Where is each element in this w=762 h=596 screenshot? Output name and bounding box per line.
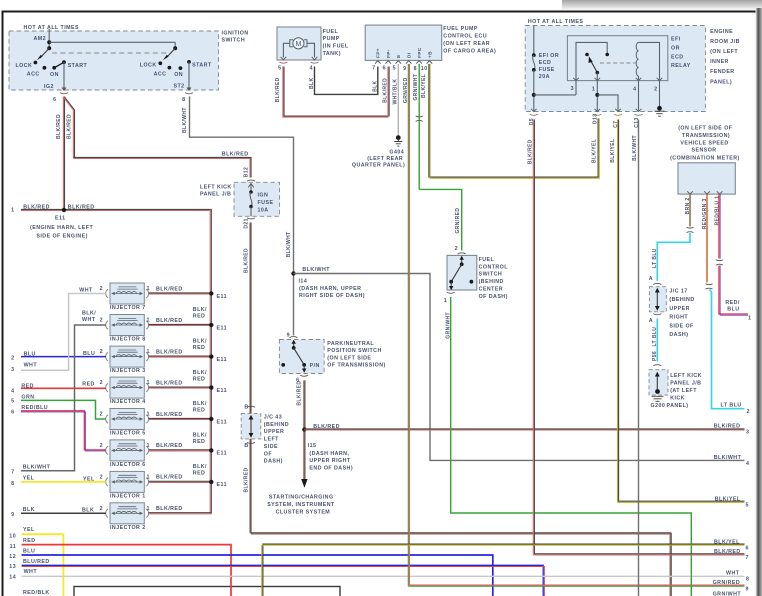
svg-text:PARK/NEUTRAL: PARK/NEUTRAL xyxy=(327,341,374,347)
svg-text:RED/BLK: RED/BLK xyxy=(23,590,50,596)
svg-text:2: 2 xyxy=(100,380,103,386)
wire relay 1 to exits D13/C7 xyxy=(596,81,598,112)
node I14 xyxy=(291,271,295,275)
wire BLK/RED D5 to right pin 7 xyxy=(534,120,744,554)
svg-text:BLK/YEL: BLK/YEL xyxy=(714,539,740,545)
svg-text:8: 8 xyxy=(414,66,417,72)
motor M xyxy=(293,38,304,49)
contact ACC left xyxy=(43,66,47,70)
svg-text:GRN/RED: GRN/RED xyxy=(713,580,741,586)
svg-text:BLK/: BLK/ xyxy=(193,370,207,376)
svg-text:EFI OR: EFI OR xyxy=(539,53,559,59)
svg-text:6: 6 xyxy=(11,409,14,415)
svg-text:SIDE OF ENGINE): SIDE OF ENGINE) xyxy=(36,234,87,240)
svg-text:TANK): TANK) xyxy=(323,51,341,57)
svg-text:OF CARGO AREA): OF CARGO AREA) xyxy=(443,48,496,54)
svg-text:6: 6 xyxy=(746,545,749,551)
svg-text:RIGHT: RIGHT xyxy=(669,315,688,321)
wire BLK/RED injector 3 out xyxy=(149,355,211,357)
svg-text:RED/BLU: RED/BLU xyxy=(21,405,48,411)
wire RED pin11 xyxy=(22,545,231,596)
svg-text:TRANSMISSION): TRANSMISSION) xyxy=(682,133,730,139)
svg-text:BLK/RED: BLK/RED xyxy=(296,381,302,406)
svg-text:3: 3 xyxy=(571,86,574,92)
wire GRN/WHT to fuel control switch xyxy=(419,189,462,250)
svg-text:GRN/WHT: GRN/WHT xyxy=(413,74,419,101)
connector A below J/C17 xyxy=(653,314,661,315)
junction connector J/C 17 xyxy=(649,287,666,312)
svg-text:ROOM J/B: ROOM J/B xyxy=(710,39,740,45)
svg-text:UPPER: UPPER xyxy=(669,306,690,312)
connector pin 4 xyxy=(311,62,319,63)
svg-text:ENGINE: ENGINE xyxy=(710,29,733,35)
node I15 xyxy=(302,427,306,431)
svg-text:8: 8 xyxy=(746,577,749,583)
switch arm left xyxy=(40,48,49,58)
svg-text:IG2: IG2 xyxy=(44,84,54,90)
svg-text:OR: OR xyxy=(671,46,680,52)
svg-text:PANEL): PANEL) xyxy=(667,403,689,409)
wire GRN/RED DI to right pin 9 xyxy=(407,64,409,586)
svg-text:QUARTER PANEL): QUARTER PANEL) xyxy=(352,163,405,169)
svg-text:E11: E11 xyxy=(217,325,227,331)
svg-text:(BEHIND: (BEHIND xyxy=(669,297,694,303)
svg-text:+B: +B xyxy=(427,51,433,58)
svg-text:DASH): DASH) xyxy=(264,459,283,465)
wire BLK/RED injector 5 out xyxy=(149,417,211,419)
svg-text:(AT LEFT: (AT LEFT xyxy=(670,388,697,394)
connector D21 xyxy=(247,218,255,219)
svg-text:SIDE OF: SIDE OF xyxy=(669,323,694,329)
svg-text:B: B xyxy=(244,443,248,449)
wire ON-START bridge xyxy=(54,62,64,68)
svg-text:4: 4 xyxy=(746,461,749,467)
wire IG2 xyxy=(63,62,65,89)
connector switch exit xyxy=(447,292,455,293)
gray band top right xyxy=(562,0,762,10)
svg-text:INNER: INNER xyxy=(710,59,729,65)
svg-text:4: 4 xyxy=(11,389,14,395)
svg-text:BLK/RED: BLK/RED xyxy=(243,248,249,273)
svg-text:5: 5 xyxy=(278,65,281,71)
svg-text:BLK/RED: BLK/RED xyxy=(383,78,389,103)
svg-text:GRN: GRN xyxy=(21,394,34,400)
svg-text:BLK/YEL: BLK/YEL xyxy=(715,497,741,503)
J/B exit chevrons xyxy=(531,109,641,112)
relay contact rail xyxy=(576,42,607,80)
svg-text:G404: G404 xyxy=(389,149,404,155)
svg-text:2: 2 xyxy=(100,349,103,355)
svg-text:FP+: FP+ xyxy=(376,48,382,58)
svg-text:CONTROL: CONTROL xyxy=(479,264,509,270)
svg-text:BLK/WHT: BLK/WHT xyxy=(632,135,638,161)
wire BRN sensor pin2 xyxy=(689,194,691,226)
injector 4 xyxy=(106,377,149,398)
svg-text:BLK/: BLK/ xyxy=(193,464,207,470)
svg-text:BLK/RED: BLK/RED xyxy=(68,204,95,210)
wire RED/BLU to right pin 1 xyxy=(719,266,748,315)
wire BLK/WHT C13 down xyxy=(638,120,640,596)
svg-text:WHT: WHT xyxy=(79,288,93,294)
node E11 tap 5 xyxy=(209,417,213,421)
svg-text:11: 11 xyxy=(10,544,17,550)
wire GRN to injector 5 xyxy=(21,400,106,419)
svg-text:8: 8 xyxy=(11,481,14,487)
svg-text:INJECTOR 4: INJECTOR 4 xyxy=(110,399,146,405)
svg-text:WHT: WHT xyxy=(82,317,96,323)
svg-text:G200: G200 xyxy=(651,403,666,409)
contact LOCK left xyxy=(34,61,38,65)
svg-text:DI: DI xyxy=(407,52,413,58)
wire BLK/RED E11 bus vertical xyxy=(210,209,212,514)
svg-text:RED: RED xyxy=(193,345,206,351)
svg-text:E11: E11 xyxy=(217,388,227,394)
svg-text:(ENGINE HARN, LEFT: (ENGINE HARN, LEFT xyxy=(30,225,93,231)
svg-text:RED/: RED/ xyxy=(725,300,740,306)
svg-text:WHT: WHT xyxy=(24,362,38,368)
svg-text:INJECTOR 2: INJECTOR 2 xyxy=(110,525,146,531)
connector RED-GRN/LTBLU xyxy=(706,284,713,289)
svg-text:PUMP: PUMP xyxy=(323,36,340,42)
svg-text:B: B xyxy=(244,404,248,410)
svg-text:RELAY: RELAY xyxy=(671,63,691,69)
svg-text:PANEL): PANEL) xyxy=(710,79,732,85)
svg-text:1: 1 xyxy=(11,208,14,214)
relay actuator dashes xyxy=(600,62,636,64)
svg-text:9: 9 xyxy=(403,66,406,72)
page border left xyxy=(2,11,4,596)
contact START left xyxy=(62,60,66,64)
svg-text:(COMBINATION METER): (COMBINATION METER) xyxy=(670,156,740,162)
svg-text:FENDER: FENDER xyxy=(710,69,734,75)
svg-text:YEL: YEL xyxy=(23,527,35,533)
svg-text:ON: ON xyxy=(50,72,59,78)
svg-text:3: 3 xyxy=(746,429,749,435)
wire LT BLU to J/C17 xyxy=(657,233,690,281)
svg-text:2: 2 xyxy=(100,443,103,449)
wire BLK/WHT from ST2 to I14 xyxy=(190,97,294,336)
svg-text:E11: E11 xyxy=(217,294,227,300)
svg-text:BLU: BLU xyxy=(727,307,739,313)
svg-text:BLK/: BLK/ xyxy=(193,339,207,345)
wire YEL pin10 down xyxy=(22,534,64,596)
svg-text:M: M xyxy=(295,41,301,48)
svg-text:WHT/BLK: WHT/BLK xyxy=(392,79,398,105)
svg-text:1: 1 xyxy=(147,443,150,449)
svg-text:A: A xyxy=(649,318,653,324)
svg-text:BLU/RED: BLU/RED xyxy=(23,559,50,565)
connector P/N exit xyxy=(300,375,308,376)
mechanical link dashes xyxy=(52,52,167,54)
svg-text:1: 1 xyxy=(147,318,150,324)
relay coil xyxy=(636,42,638,76)
svg-text:BLK/YEL: BLK/YEL xyxy=(591,139,597,163)
ECU box xyxy=(365,25,442,60)
svg-text:9: 9 xyxy=(746,586,749,592)
svg-text:D13: D13 xyxy=(592,114,598,124)
svg-text:BLK/RED: BLK/RED xyxy=(156,286,183,292)
connector at ST2 xyxy=(187,88,192,92)
connector BRN/LTBLU xyxy=(687,227,694,232)
svg-text:1: 1 xyxy=(147,506,150,512)
svg-text:HOT AT ALL TIMES: HOT AT ALL TIMES xyxy=(528,19,583,25)
svg-text:ST2: ST2 xyxy=(174,83,185,89)
svg-text:2: 2 xyxy=(100,318,103,324)
svg-text:E: E xyxy=(396,54,402,58)
injector 1 xyxy=(106,471,149,492)
wire BLK/RED injector 4 out xyxy=(149,386,211,388)
svg-text:POSITION SWITCH: POSITION SWITCH xyxy=(327,348,381,354)
svg-text:BLK/WHT: BLK/WHT xyxy=(714,455,742,461)
wire BLK/YEL C7 to right pin 5 xyxy=(619,120,745,502)
svg-text:LEFT: LEFT xyxy=(264,437,279,443)
wire BLU to injector 3 xyxy=(21,356,106,358)
wire YEL to injector 1 xyxy=(21,481,106,483)
node E11 tap 6 xyxy=(209,448,213,452)
svg-text:WHT: WHT xyxy=(726,571,740,577)
switch box xyxy=(447,255,477,290)
contact ON right xyxy=(179,66,183,70)
svg-text:A: A xyxy=(649,276,653,282)
wire RED to injector 4 xyxy=(21,387,106,389)
injector 7 xyxy=(106,283,149,304)
svg-text:6: 6 xyxy=(53,97,56,103)
svg-text:BLK/RED: BLK/RED xyxy=(156,443,183,449)
svg-text:RED: RED xyxy=(193,314,206,320)
contact START right xyxy=(187,60,191,64)
svg-text:WHT: WHT xyxy=(24,569,38,575)
connector C13 xyxy=(635,114,643,115)
svg-text:ACC: ACC xyxy=(154,71,167,77)
switch PARK/NEUTRAL POSITION xyxy=(279,340,324,374)
svg-text:LOCK: LOCK xyxy=(16,63,33,69)
wire LT BLU J/C17 to G200 xyxy=(656,319,658,362)
svg-text:INJECTOR 5: INJECTOR 5 xyxy=(110,431,146,437)
wire BLU/RED pin13 xyxy=(22,565,544,596)
svg-text:OF DASH): OF DASH) xyxy=(479,294,508,300)
svg-text:BLK/RED: BLK/RED xyxy=(528,139,534,164)
svg-text:LT BLU: LT BLU xyxy=(652,248,658,268)
wire BLK/RED down at x=670 xyxy=(669,533,671,596)
svg-text:UPPER: UPPER xyxy=(264,429,285,435)
svg-text:7: 7 xyxy=(372,65,375,71)
right switch pivot xyxy=(174,42,176,48)
svg-text:E11: E11 xyxy=(217,419,227,425)
wire BLK pump to ECU FP+ xyxy=(315,67,378,95)
svg-text:CLUSTER SYSTEM: CLUSTER SYSTEM xyxy=(276,510,331,516)
connector C7 xyxy=(614,114,622,115)
svg-text:1: 1 xyxy=(147,412,150,418)
svg-text:STARTING/CHARGING: STARTING/CHARGING xyxy=(269,494,334,500)
svg-text:(DASH HARN, UPPER: (DASH HARN, UPPER xyxy=(299,286,361,292)
svg-text:INJECTOR 3: INJECTOR 3 xyxy=(110,368,146,374)
junction box ENGINE ROOM J/B xyxy=(525,26,705,112)
svg-text:LT BLU: LT BLU xyxy=(721,403,742,409)
svg-text:GRN/WHT: GRN/WHT xyxy=(713,591,742,596)
fuse EFI OR ECD 20A xyxy=(533,26,535,56)
svg-text:LOCK: LOCK xyxy=(140,63,157,69)
svg-text:1: 1 xyxy=(147,286,150,292)
injector 6 xyxy=(106,440,149,461)
wire RED/BLU to injector 6 xyxy=(21,411,106,450)
svg-text:BLK/: BLK/ xyxy=(193,433,207,439)
connector RED/BLU xyxy=(716,260,723,265)
svg-text:3: 3 xyxy=(11,367,14,373)
node E11 tap 1 xyxy=(209,480,213,484)
wire BLK/RED horizontal to B12 xyxy=(73,156,251,158)
page border top xyxy=(2,11,758,13)
svg-text:P56: P56 xyxy=(652,351,658,361)
svg-text:FPC: FPC xyxy=(417,47,423,58)
svg-text:RED: RED xyxy=(193,471,206,477)
svg-text:J/C 17: J/C 17 xyxy=(669,289,687,295)
connector B12 xyxy=(247,180,255,181)
svg-text:EFI: EFI xyxy=(671,37,681,43)
connector D5 xyxy=(530,114,538,115)
svg-text:INJECTOR 8: INJECTOR 8 xyxy=(110,337,146,343)
fuse IGN 10A xyxy=(248,184,254,188)
sensor exit chevrons xyxy=(687,191,722,194)
svg-text:BLK/RED: BLK/RED xyxy=(156,318,183,324)
fuel pump box xyxy=(277,27,321,60)
svg-text:IGNITION: IGNITION xyxy=(222,31,249,37)
svg-text:BLK/RED: BLK/RED xyxy=(156,380,183,386)
svg-text:5: 5 xyxy=(746,503,749,509)
wire BLK/YEL +B to J/B D13 xyxy=(429,64,598,177)
wire BLK/RED D21 down xyxy=(250,223,252,534)
svg-text:(LEFT REAR: (LEFT REAR xyxy=(367,156,403,162)
svg-text:ECD: ECD xyxy=(671,54,684,60)
relay EFI OR ECD xyxy=(567,36,667,81)
svg-text:(ON LEFT REAR: (ON LEFT REAR xyxy=(443,41,490,47)
svg-text:14: 14 xyxy=(9,575,16,581)
svg-text:E11: E11 xyxy=(217,482,227,488)
svg-text:INJECTOR 7: INJECTOR 7 xyxy=(110,305,146,311)
wire LT BLU to right pin 2 xyxy=(710,290,745,409)
injector 2 xyxy=(106,503,149,524)
svg-text:(ON LEFT SIDE: (ON LEFT SIDE xyxy=(327,355,371,361)
injector 5 xyxy=(106,409,149,430)
svg-text:INJECTOR 1: INJECTOR 1 xyxy=(110,493,146,499)
svg-text:BLK/YEL: BLK/YEL xyxy=(421,74,427,98)
junction box IGN FUSE xyxy=(234,182,280,216)
wire BLU pin12 xyxy=(22,555,493,596)
svg-text:SWITCH: SWITCH xyxy=(222,38,246,44)
svg-text:BLK/WHT: BLK/WHT xyxy=(23,464,51,470)
svg-text:J/C 43: J/C 43 xyxy=(264,415,282,421)
node E11 xyxy=(62,208,66,212)
svg-text:D21: D21 xyxy=(244,218,250,228)
svg-text:E11: E11 xyxy=(217,357,227,363)
svg-text:BLK/RED: BLK/RED xyxy=(243,467,249,492)
svg-text:SYSTEM, INSTRUMENT: SYSTEM, INSTRUMENT xyxy=(267,502,335,508)
node E11 tap 3 xyxy=(209,354,213,358)
wire WHT pin14 to right pin 8 xyxy=(22,575,745,577)
svg-text:4: 4 xyxy=(633,87,636,93)
svg-text:FP-: FP- xyxy=(386,49,392,58)
connector P56 xyxy=(653,365,661,366)
contact ACC right xyxy=(168,66,172,70)
svg-text:(ON LEFT SIDE OF: (ON LEFT SIDE OF xyxy=(678,126,733,132)
svg-text:5: 5 xyxy=(393,65,396,71)
svg-text:BLK/: BLK/ xyxy=(193,401,207,407)
bottom left box xyxy=(74,587,340,596)
ground in J/B xyxy=(659,81,661,108)
svg-text:1: 1 xyxy=(748,315,751,321)
svg-text:BLK/RED: BLK/RED xyxy=(156,506,183,512)
svg-text:ON: ON xyxy=(174,72,183,78)
junction box G200 LEFT KICK PANEL J/B xyxy=(649,370,668,395)
svg-text:2: 2 xyxy=(11,355,14,361)
injector 8 xyxy=(106,315,149,336)
svg-text:5: 5 xyxy=(11,399,14,405)
wire BLK/RED bottom run to right xyxy=(251,532,671,534)
relay arm xyxy=(591,60,598,72)
svg-text:I14: I14 xyxy=(299,278,308,284)
svg-text:BLK/RED: BLK/RED xyxy=(67,114,73,139)
sensor box xyxy=(678,163,735,194)
svg-text:9: 9 xyxy=(11,512,14,518)
svg-text:ECD: ECD xyxy=(539,60,552,66)
svg-text:E11: E11 xyxy=(55,216,65,222)
svg-text:SIDE: SIDE xyxy=(264,444,278,450)
svg-text:13: 13 xyxy=(9,564,16,570)
connector inline GRN/WHT xyxy=(416,116,423,121)
svg-text:(IN FUEL: (IN FUEL xyxy=(323,44,349,50)
svg-text:START: START xyxy=(68,63,88,69)
junction connector J/C 43 xyxy=(241,414,261,439)
wire WHT to injector 7 xyxy=(21,294,106,371)
wire AM2 feed xyxy=(48,29,50,48)
ground G200 xyxy=(655,389,660,394)
wire AM2 to right switch xyxy=(49,41,175,43)
svg-text:6: 6 xyxy=(383,65,386,71)
svg-text:BLU: BLU xyxy=(83,351,95,357)
svg-text:RED: RED xyxy=(193,439,206,445)
svg-text:2: 2 xyxy=(100,286,103,292)
svg-text:1: 1 xyxy=(147,380,150,386)
svg-text:CENTER: CENTER xyxy=(479,287,503,293)
svg-text:INJECTOR 6: INJECTOR 6 xyxy=(110,462,146,468)
svg-text:VEHICLE SPEED: VEHICLE SPEED xyxy=(680,140,728,146)
injector 3 xyxy=(106,346,149,367)
svg-text:2: 2 xyxy=(100,474,103,480)
svg-text:RIGHT SIDE OF DASH): RIGHT SIDE OF DASH) xyxy=(299,293,365,299)
wire BLK/WHT I14 to right pin 4 xyxy=(294,274,745,461)
connector D13 xyxy=(593,114,601,115)
wire BLK/RED injector 7 out xyxy=(149,292,211,294)
svg-text:BLK/: BLK/ xyxy=(193,307,207,313)
svg-text:4: 4 xyxy=(310,65,313,71)
node E11 tap 8 xyxy=(209,323,213,327)
relay exit chevrons xyxy=(573,78,662,81)
svg-text:FUEL: FUEL xyxy=(479,257,495,263)
wire BLK to injector 2 xyxy=(21,512,106,514)
wire GRN/WHT switch to bottom right xyxy=(451,297,692,596)
svg-text:2: 2 xyxy=(100,412,103,418)
wire BLK/RED P/N to I15 xyxy=(304,380,306,480)
connector pin 5 xyxy=(279,62,287,63)
svg-text:RED: RED xyxy=(23,538,36,544)
wire BLK/RED I15 to right pin 3 xyxy=(304,428,744,430)
svg-text:I15: I15 xyxy=(308,443,317,449)
svg-text:(BEHIND: (BEHIND xyxy=(264,422,289,428)
wire BLK/RED injector 1 out xyxy=(149,480,211,482)
svg-text:2: 2 xyxy=(747,409,750,415)
svg-text:SENSOR: SENSOR xyxy=(692,148,717,154)
wire RED/GRN sensor pin3 xyxy=(706,194,708,282)
svg-text:OF TRANSMISSION): OF TRANSMISSION) xyxy=(327,363,385,369)
